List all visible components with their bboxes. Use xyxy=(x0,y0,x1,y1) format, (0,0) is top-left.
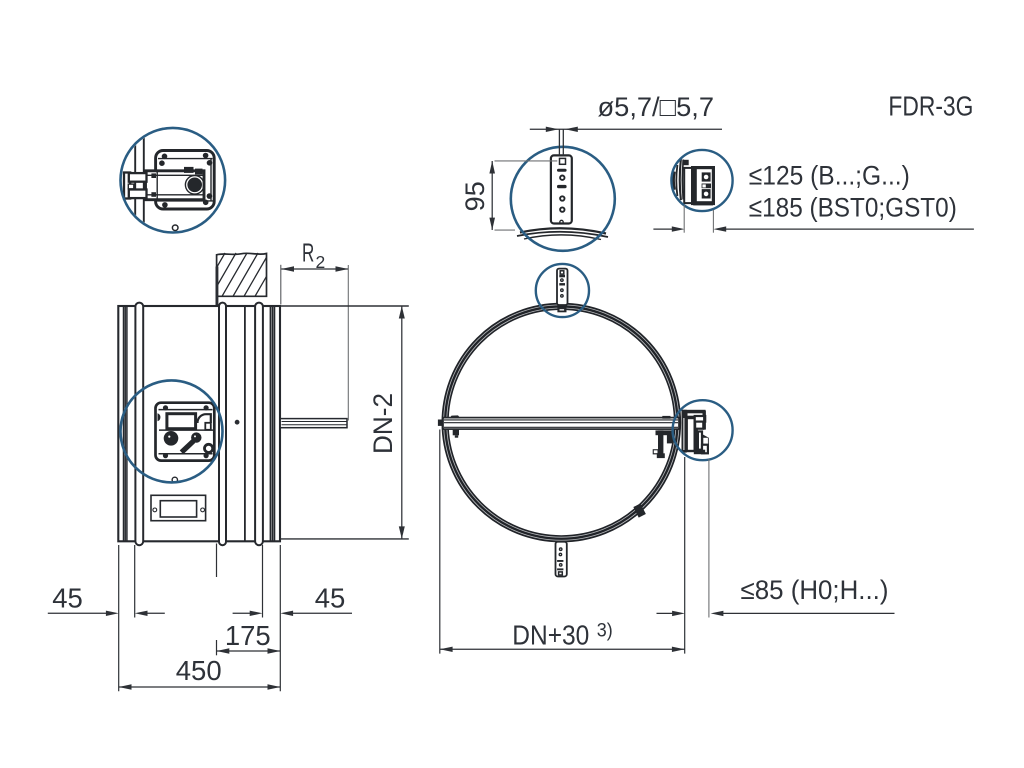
plate bolt bottom-right xyxy=(204,453,209,458)
actuator bottom bar xyxy=(694,450,705,455)
mid rail xyxy=(159,429,213,431)
wall section outline xyxy=(217,253,267,296)
svg-text:≤185 (BST0;GST0): ≤185 (BST0;GST0) xyxy=(749,193,957,223)
dim o5,7 line xyxy=(530,128,722,130)
svg-text:175: 175 xyxy=(225,620,271,651)
slot 2 xyxy=(557,185,567,188)
dim <=125/185 xyxy=(653,228,673,230)
actuator mount plate xyxy=(682,410,687,453)
blade bar xyxy=(443,418,679,430)
dim 95 xyxy=(491,161,493,230)
hook window xyxy=(698,432,702,450)
left rim line b xyxy=(124,306,126,541)
strip stem xyxy=(558,129,560,155)
dim 45 left xyxy=(48,612,107,614)
svg-text:450: 450 xyxy=(176,655,222,686)
dim <=85 xyxy=(657,612,674,614)
svg-text:2: 2 xyxy=(316,252,326,272)
rib bead 1 xyxy=(135,303,143,546)
fork prong upper xyxy=(129,173,147,182)
bolt 1 xyxy=(702,172,711,181)
svg-text:≤125 (B...;G...): ≤125 (B...;G...) xyxy=(749,161,910,191)
dim 175 xyxy=(217,650,281,652)
DN-2 ext top xyxy=(281,305,409,307)
actuator box xyxy=(693,168,714,204)
DN-2 ext bottom xyxy=(281,538,409,540)
svg-text:95: 95 xyxy=(460,181,490,211)
round hole 3 xyxy=(560,207,564,211)
ext circle-left down xyxy=(439,430,441,654)
duct wall curve a xyxy=(680,159,681,200)
ext lines bottom xyxy=(118,545,120,691)
bracket foot xyxy=(653,449,661,454)
dim DN-2 xyxy=(401,306,403,539)
hinge dark lug xyxy=(158,413,161,421)
wall tab top xyxy=(682,160,688,165)
top strip foot xyxy=(557,307,566,312)
actuator right frame lower xyxy=(695,422,703,429)
duct ring edge arcs xyxy=(672,172,676,190)
body outline xyxy=(118,306,280,541)
hook lower box xyxy=(702,445,708,454)
actuator top cap xyxy=(682,410,706,418)
plate bolt bottom-left xyxy=(163,453,168,458)
detail circle B (side mechanism) xyxy=(121,380,223,482)
bolt 2 xyxy=(702,189,711,198)
base hole xyxy=(560,220,563,223)
svg-text:DN-2: DN-2 xyxy=(368,393,398,454)
detail circle F (front actuator) xyxy=(673,400,733,460)
casing ring band xyxy=(445,306,677,538)
svg-text:45: 45 xyxy=(315,583,346,614)
small hole below mechanism xyxy=(172,477,177,482)
body mid line xyxy=(244,306,246,541)
plate bolt top-right xyxy=(204,405,209,410)
wall section (hatched) xyxy=(189,253,302,296)
top mounting strip xyxy=(557,269,568,305)
left rim line c xyxy=(126,306,128,541)
left rim line a xyxy=(123,306,125,541)
dim 450 xyxy=(119,686,281,688)
housing screw left-top xyxy=(151,173,156,178)
dim 45 right xyxy=(233,612,251,614)
detail circle E (top right) xyxy=(671,150,732,211)
R2 ext right xyxy=(347,265,349,421)
ext gray xyxy=(708,459,710,618)
round hole 1 xyxy=(560,176,564,180)
wall sealant thick line xyxy=(216,267,219,306)
duct wall line a xyxy=(134,144,136,217)
R2 ext left xyxy=(280,265,282,305)
handle lever xyxy=(191,432,201,442)
dim R2 line xyxy=(281,268,348,270)
rib bead 3 xyxy=(255,303,263,546)
bump on bar (left) xyxy=(450,415,461,418)
detail circle C (magnified strip) xyxy=(511,147,615,251)
svg-text:≤85 (H0;H...): ≤85 (H0;H...) xyxy=(741,575,889,605)
spring barrel xyxy=(185,176,204,195)
corner block xyxy=(195,169,203,175)
svg-text:R: R xyxy=(302,238,314,268)
plate bolt top-left xyxy=(163,405,168,410)
square hole xyxy=(560,158,566,164)
detail circle A (top-left) xyxy=(121,128,226,233)
bottom tab xyxy=(693,201,713,205)
magnified strip body xyxy=(551,155,572,223)
fork prong lower xyxy=(129,190,147,199)
clasp ring xyxy=(205,444,213,452)
cam block xyxy=(184,167,194,173)
clip below bar (left) xyxy=(453,430,459,436)
release box plate xyxy=(156,403,215,461)
shaft pivot dot xyxy=(235,420,240,425)
blade stop bracket (inside ring) xyxy=(656,430,674,435)
duct wall line b xyxy=(143,137,145,225)
actuator body xyxy=(687,418,695,451)
right flap xyxy=(197,414,210,423)
detail circle D (top strip) xyxy=(536,264,589,317)
slot 1 xyxy=(557,169,567,172)
casing ring seam 2 xyxy=(447,308,676,537)
name plate xyxy=(151,495,206,520)
upper window xyxy=(167,414,196,429)
blade stub (open position) xyxy=(280,419,347,428)
right rim line c xyxy=(273,306,275,541)
svg-text:DN+30: DN+30 xyxy=(512,619,589,650)
plate bolts xyxy=(162,154,168,160)
wall tab bottom xyxy=(682,194,689,199)
ext from actuator down (dark) xyxy=(684,457,686,654)
right rim line a xyxy=(270,306,272,541)
rib bead 2 xyxy=(219,303,226,546)
duct surface arcs xyxy=(520,228,606,233)
right rim line b xyxy=(272,306,274,541)
knob xyxy=(164,431,179,446)
svg-text:FDR-3G: FDR-3G xyxy=(888,91,973,122)
bracket column xyxy=(684,168,692,203)
housing screw left-bottom xyxy=(151,192,156,197)
latch housing xyxy=(146,171,205,200)
svg-text:45: 45 xyxy=(52,583,83,614)
fork back bar xyxy=(124,173,130,199)
lower-right ring tab xyxy=(633,503,645,517)
pin wedge xyxy=(702,434,709,446)
bottom mounting strip xyxy=(552,540,570,542)
spring hook column xyxy=(695,429,698,454)
svg-text:3): 3) xyxy=(597,620,613,641)
blade pivot nub left xyxy=(438,420,444,426)
round hole 2 xyxy=(560,196,564,200)
mount plate xyxy=(156,151,215,210)
dim DN+30 xyxy=(440,648,685,650)
slot xyxy=(702,184,711,189)
small hole below xyxy=(172,225,178,231)
casing ring seam 1 xyxy=(444,305,679,540)
svg-text:ø5,7/□5,7: ø5,7/□5,7 xyxy=(598,92,715,122)
fork hole xyxy=(128,184,134,189)
actuator right frame upper xyxy=(695,416,706,422)
bump on bar (right) xyxy=(662,416,670,419)
right column xyxy=(703,411,706,430)
